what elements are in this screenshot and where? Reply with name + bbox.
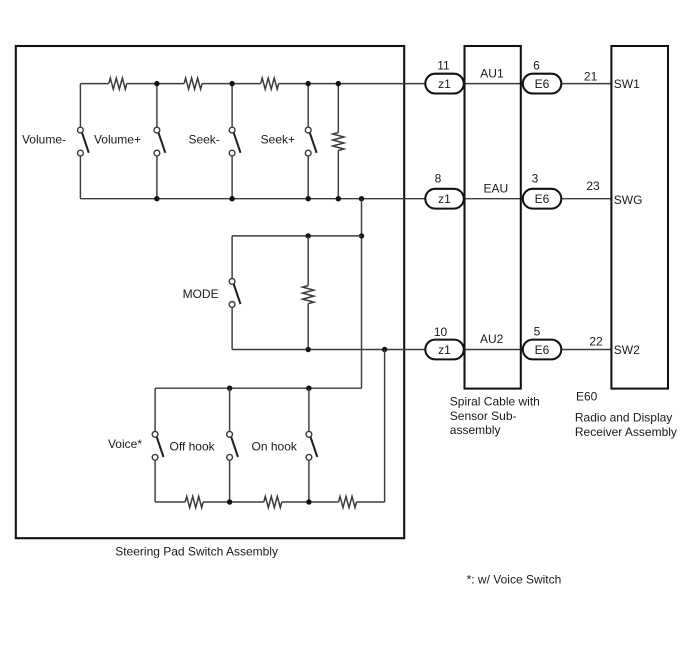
svg-text:AU2: AU2 [480, 332, 504, 346]
resistor R7 (voice bottom rail, middle) [264, 496, 282, 507]
box: Radio and Display Receiver Assembly [611, 46, 668, 389]
pin number 5 [534, 324, 541, 338]
wire row3 AU2/SW2 net (MODE bottom rail) [232, 349, 611, 351]
connector E6 pin 3 [523, 189, 562, 209]
svg-text:Volume-: Volume- [22, 132, 66, 146]
svg-text:assembly: assembly [450, 423, 501, 437]
svg-text:Off hook: Off hook [170, 439, 216, 453]
label SW2 [614, 343, 640, 357]
label SWG [614, 193, 643, 207]
junction dot row2 feed at MODE top rail [359, 233, 364, 238]
junction dots on row2 rail [154, 196, 364, 201]
label AU1 [480, 66, 504, 80]
switch Volume+ with stems [154, 84, 165, 199]
label On hook [252, 439, 298, 453]
svg-text:Receiver Assembly: Receiver Assembly [575, 425, 677, 439]
connector E6 pin 6 [523, 74, 562, 94]
svg-text:22: 22 [589, 334, 603, 348]
top rail wire between switch columns [80, 83, 338, 85]
resistor R8 (voice bottom rail, right) [339, 496, 357, 507]
svg-text:AU1: AU1 [480, 66, 504, 80]
svg-text:z1: z1 [438, 77, 451, 91]
label Volume- [22, 132, 66, 146]
resistor R6 (voice bottom rail, left) [185, 496, 203, 507]
svg-text:*: w/ Voice Switch: *: w/ Voice Switch [467, 573, 562, 587]
junction dot MODE top rail at resistor [306, 233, 311, 238]
svg-text:Voice*: Voice* [108, 437, 142, 451]
svg-text:8: 8 [435, 171, 442, 185]
label Seek+ [261, 132, 295, 146]
pin number 10 [434, 325, 448, 339]
junction dots on voice top rail [227, 386, 312, 391]
label AU2 [480, 332, 504, 346]
svg-text:Seek+: Seek+ [261, 132, 295, 146]
caption E60 [576, 389, 598, 403]
resistor R2 (top rail, Volume+ / Seek-) [184, 78, 202, 89]
svg-text:EAU: EAU [484, 181, 509, 195]
svg-text:E6: E6 [535, 343, 550, 357]
svg-text:Volume+: Volume+ [94, 132, 141, 146]
svg-text:Sensor Sub-: Sensor Sub- [450, 409, 517, 423]
connector z1 pin 8 [425, 189, 464, 209]
svg-text:Steering Pad Switch Assembly: Steering Pad Switch Assembly [115, 545, 278, 559]
wire row2 down to MODE/voice section [361, 199, 363, 389]
svg-text:E60: E60 [576, 389, 598, 403]
big box: Steering Pad Switch Assembly outline [16, 46, 404, 538]
box: Spiral Cable with Sensor Sub-assembly [465, 46, 521, 389]
svg-text:Spiral Cable with: Spiral Cable with [450, 395, 540, 409]
label EAU [484, 181, 509, 195]
caption Spiral Cable with Sensor Sub-assembly [450, 395, 540, 437]
svg-text:SW2: SW2 [614, 343, 640, 357]
wire row2 EAU/SWG net (top-section bottom rail) [80, 198, 611, 200]
svg-text:6: 6 [533, 59, 540, 73]
MODE top rail wire [232, 235, 361, 237]
svg-text:SWG: SWG [614, 193, 643, 207]
connector z1 pin 10 [425, 340, 464, 360]
caption Steering Pad Switch Assembly [115, 545, 278, 559]
pin number 6 [533, 59, 540, 73]
wire number 23 [586, 179, 600, 193]
svg-text:Seek-: Seek- [188, 132, 219, 146]
label SW1 [614, 77, 640, 91]
switch Off hook with stems [227, 388, 238, 502]
junction dots on row3 rail [306, 347, 388, 352]
pin number 11 [437, 59, 450, 73]
svg-text:E6: E6 [535, 77, 550, 91]
wire number 21 [584, 69, 598, 83]
resistor R5 (vertical, MODE section) [303, 236, 314, 350]
switch Seek+ with stems [305, 84, 316, 199]
svg-text:z1: z1 [438, 192, 451, 206]
svg-text:3: 3 [532, 171, 539, 185]
switch MODE with stems [229, 236, 240, 350]
label Voice* [108, 437, 142, 451]
label Volume+ [94, 132, 141, 146]
caption Radio and Display Receiver Assembly [575, 411, 677, 439]
junction dots on top rail [154, 81, 341, 86]
switch On hook with stems [306, 388, 317, 502]
svg-text:MODE: MODE [183, 287, 219, 301]
svg-text:Radio and Display: Radio and Display [575, 411, 672, 425]
label Seek- [188, 132, 219, 146]
label Off hook [170, 439, 216, 453]
svg-text:11: 11 [437, 59, 450, 73]
svg-text:5: 5 [534, 324, 541, 338]
connector z1 pin 11 [425, 74, 464, 94]
resistor R3 (top rail, Seek- / Seek+) [261, 78, 279, 89]
switch Voice* with stems [152, 388, 163, 502]
svg-text:E6: E6 [535, 192, 550, 206]
connector E6 pin 5 [523, 340, 562, 360]
wire number 22 [589, 334, 603, 348]
svg-text:10: 10 [434, 325, 448, 339]
label MODE [183, 287, 219, 301]
svg-text:23: 23 [586, 179, 600, 193]
svg-text:SW1: SW1 [614, 77, 640, 91]
svg-text:On hook: On hook [252, 439, 298, 453]
svg-text:z1: z1 [438, 343, 451, 357]
switch Volume- with stems [78, 84, 89, 199]
wire row1 AU1/SW1 net [338, 83, 611, 85]
voice top rail wire [155, 387, 361, 389]
pin number 8 [435, 171, 442, 185]
resistor R4 (vertical, top section right) [333, 84, 344, 199]
note w/ Voice Switch [467, 573, 562, 587]
switch Seek- with stems [229, 84, 240, 199]
voice bottom rail wire [155, 501, 385, 503]
svg-text:21: 21 [584, 69, 598, 83]
resistor R1 (top rail, Volume- / Volume+) [109, 78, 127, 89]
wire row3 down to voice bottom rail [384, 350, 386, 503]
junction dots on voice bottom rail [227, 499, 312, 504]
pin number 3 [532, 171, 539, 185]
